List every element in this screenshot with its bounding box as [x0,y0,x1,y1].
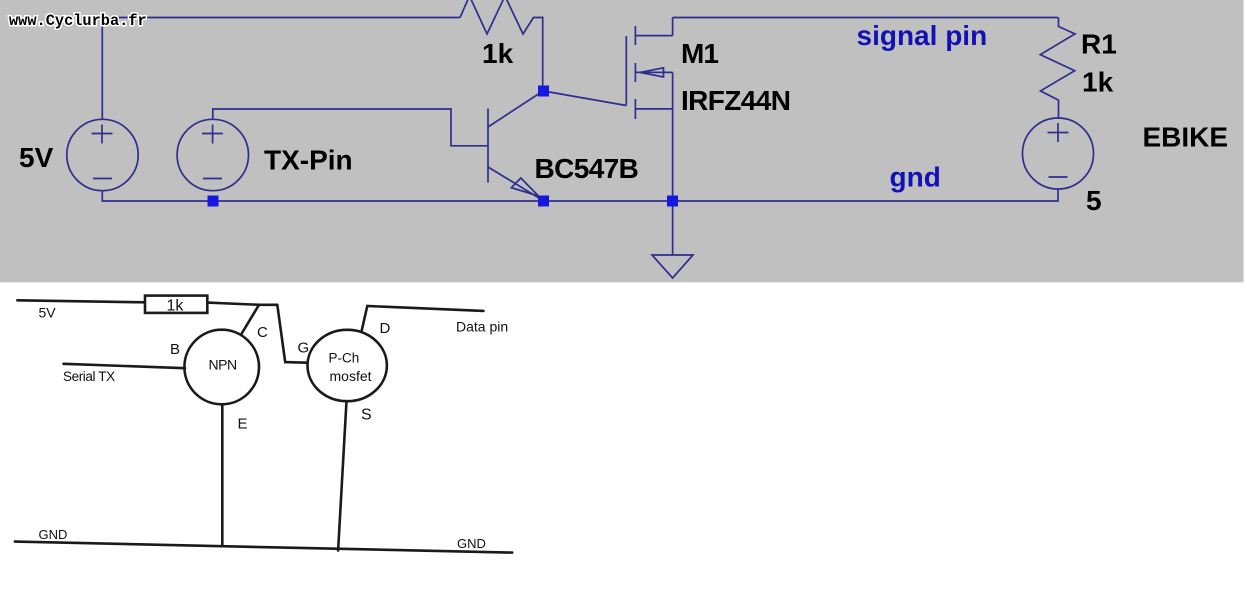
resistor R1 (vertical zigzag) [1040,17,1075,118]
svg-text:IRFZ44N: IRFZ44N [681,85,790,116]
svg-text:S: S [361,407,372,424]
svg-text:1k: 1k [1082,67,1114,98]
svg-text:signal pin: signal pin [857,20,988,51]
wire source down [672,72,674,201]
wire gnd rail [102,189,1058,202]
svg-text:1k: 1k [482,38,514,69]
voltage source V2 TX-Pin [177,119,248,190]
svg-text:Serial TX: Serial TX [63,369,115,384]
wire top rail left [102,18,460,120]
wire 5V rail [17,300,145,302]
svg-text:mosfet: mosfet [330,368,372,384]
voltage source V1 5V [67,119,138,190]
transistor NPN circle [184,330,259,405]
ground [652,201,693,278]
wire TX-Pin to base [213,109,488,146]
svg-text:gnd: gnd [890,162,941,193]
svg-text:EBIKE: EBIKE [1143,122,1229,153]
resistor 1k (horizontal zigzag, top cropped) [460,0,543,86]
svg-text:TX-Pin: TX-Pin [264,145,353,176]
node junction at R-base/gate [538,86,549,97]
wire gate lead [544,91,627,106]
node junction emitter gnd [538,196,549,207]
transistor P-Ch mosfet circle [308,330,387,401]
svg-text:5: 5 [1086,185,1102,216]
resistor 1k box [145,296,207,313]
svg-text:Data pin: Data pin [456,319,508,335]
svg-text:GND: GND [457,536,486,551]
wire gate link [277,305,311,363]
wire drain to data pin [362,306,484,332]
wire top rail right [673,17,1058,19]
svg-text:5V: 5V [39,305,57,321]
svg-text:P-Ch: P-Ch [329,351,360,366]
node junction mosfet gnd [667,196,678,207]
svg-text:GND: GND [39,527,68,542]
svg-text:5V: 5V [19,142,54,173]
svg-text:E: E [238,416,248,433]
wire emitter down [221,404,224,546]
transistor M1 (NMOS) [626,26,672,119]
svg-text:G: G [298,340,310,357]
wire base (Serial TX) [64,364,186,368]
gray schematic background [0,0,1244,282]
svg-text:D: D [380,320,391,337]
svg-text:1k: 1k [167,298,185,315]
node junction TX-Pin gnd [208,196,219,207]
wire source down [338,401,346,550]
svg-text:C: C [257,324,268,341]
wire collector branch [242,305,259,334]
voltage source V3 EBIKE [1023,118,1094,189]
svg-text:R1: R1 [1081,29,1117,60]
svg-text:BC547B: BC547B [535,153,639,184]
wire drain up [672,18,674,36]
svg-text:M1: M1 [681,38,718,69]
svg-text:B: B [170,341,180,358]
svg-text:NPN: NPN [209,357,237,373]
transistor Q1 BC547B [488,91,543,201]
wire GND rail [15,542,512,553]
wire box to node [207,303,277,305]
svg-text:www.Cyclurba.fr: www.Cyclurba.fr [9,12,147,30]
